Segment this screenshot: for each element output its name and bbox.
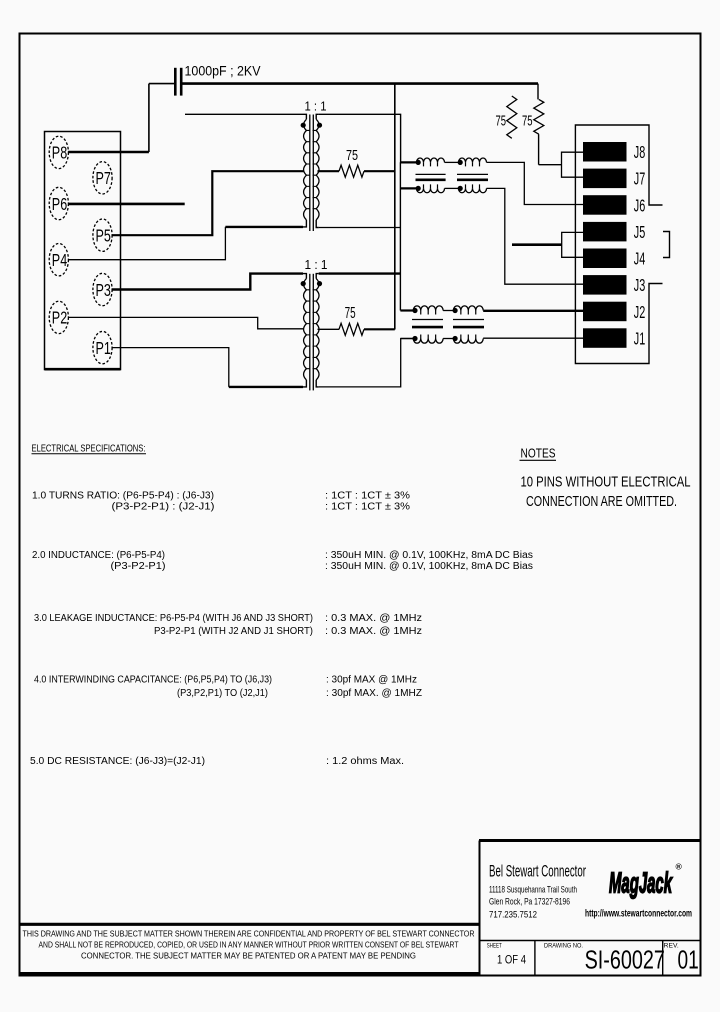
svg-text:ELECTRICAL SPECIFICATIONS:: ELECTRICAL SPECIFICATIONS: xyxy=(32,444,146,455)
svg-text:P2: P2 xyxy=(52,309,67,329)
svg-text:DRAWING NO.: DRAWING NO. xyxy=(544,943,583,950)
pin P3 xyxy=(93,273,112,305)
svg-text:J6: J6 xyxy=(634,197,645,216)
disclaimer box xyxy=(19,923,479,926)
svg-text:®: ® xyxy=(676,862,683,872)
svg-text:1.0 TURNS RATIO: (P6-P5-P4) :: 1.0 TURNS RATIO: (P6-P5-P4) : (J6-J3) xyxy=(32,491,214,502)
node J5/J4 right bracket xyxy=(663,232,670,258)
svg-text:(P3,P2,P1) TO (J2,J1): (P3,P2,P1) TO (J2,J1) xyxy=(177,688,268,699)
choke L1 core xyxy=(416,173,446,175)
svg-text:75: 75 xyxy=(522,112,533,129)
svg-text:: 30pf MAX @ 1MHz: : 30pf MAX @ 1MHz xyxy=(326,675,417,686)
transformer T1 secondary winding xyxy=(316,114,319,119)
pin J7 xyxy=(583,169,627,189)
svg-text:11118 Susquehanna Trail South: 11118 Susquehanna Trail South xyxy=(489,884,577,895)
svg-text:CONNECTOR. THE SUBJECT MATTER: CONNECTOR. THE SUBJECT MATTER MAY BE PAT… xyxy=(81,950,416,960)
wire T2 secondary top to node xyxy=(319,272,401,274)
svg-text:MagJack: MagJack xyxy=(609,868,673,900)
resistor R3 75 (T1 center tap) xyxy=(318,170,340,172)
wire choke L2 to J1 xyxy=(483,337,583,339)
svg-text:3.0 LEAKAGE INDUCTANCE: P6-P5-: 3.0 LEAKAGE INDUCTANCE: P6-P5-P4 (WITH J… xyxy=(34,613,313,624)
wire P1 to T2 primary bottom xyxy=(112,348,229,387)
wire P4 to T1 primary bottom xyxy=(68,227,225,260)
wire R2 to J8/J7 bracket xyxy=(539,164,562,166)
transformer T2 core xyxy=(309,274,311,391)
svg-text:1 : 1: 1 : 1 xyxy=(305,257,328,272)
svg-text:: 0.3 MAX. @ 1MHz: : 0.3 MAX. @ 1MHz xyxy=(325,613,422,624)
svg-text:THIS DRAWING AND THE SUBJECT M: THIS DRAWING AND THE SUBJECT MATTER SHOW… xyxy=(23,928,475,938)
svg-text:5.0 DC RESISTANCE: (J6-J3)=(J2: 5.0 DC RESISTANCE: (J6-J3)=(J2-J1) xyxy=(30,756,205,767)
wire common node vertical xyxy=(399,162,401,310)
svg-text:1 OF 4: 1 OF 4 xyxy=(497,955,526,967)
node J5/J4 bracket xyxy=(562,232,583,257)
resistor R1 75 (floating) xyxy=(507,96,517,138)
svg-text:J1: J1 xyxy=(634,330,645,349)
svg-text:J7: J7 xyxy=(634,170,645,189)
svg-text:717.235.7512: 717.235.7512 xyxy=(489,910,537,921)
svg-text:Bel Stewart Connector: Bel Stewart Connector xyxy=(489,863,586,881)
pin P1 xyxy=(93,331,112,363)
MagJack logo xyxy=(609,868,673,900)
svg-text:P3: P3 xyxy=(96,281,111,301)
wire P8 to cap xyxy=(68,151,149,154)
transformer T2 polarity dots xyxy=(301,281,306,286)
svg-text:2.0 INDUCTANCE: (P6-P5-P4): 2.0 INDUCTANCE: (P6-P5-P4) xyxy=(32,550,165,561)
wire center-tap rail xyxy=(394,84,396,330)
svg-text:REV.: REV. xyxy=(664,943,679,950)
choke L1 top winding xyxy=(401,161,418,163)
wire T1 primary top (open end) xyxy=(185,113,303,115)
wire choke L1 to J6 xyxy=(487,162,584,204)
connector P box xyxy=(45,132,121,370)
svg-text:: 350uH MIN. @ 0.1V, 100KHz, 8: : 350uH MIN. @ 0.1V, 100KHz, 8mA DC Bias xyxy=(325,561,533,572)
pin P8 xyxy=(49,136,68,168)
pin P2 xyxy=(49,301,68,333)
svg-text:75: 75 xyxy=(346,147,358,164)
title block frame xyxy=(479,839,701,842)
svg-text:J8: J8 xyxy=(634,144,645,163)
svg-text:J5: J5 xyxy=(634,223,645,242)
choke L2 core xyxy=(412,319,443,321)
wire T2 secondary bottom xyxy=(319,339,414,387)
svg-text:J2: J2 xyxy=(634,303,645,322)
svg-text:P5: P5 xyxy=(96,227,111,247)
svg-text:: 0.3 MAX. @ 1MHz: : 0.3 MAX. @ 1MHz xyxy=(325,626,422,637)
transformer T1 primary winding xyxy=(303,114,306,119)
wire cap to resistor R2 (top rail) xyxy=(182,82,538,85)
svg-text:P8: P8 xyxy=(52,144,67,164)
svg-text:: 1.2 ohms Max.: : 1.2 ohms Max. xyxy=(326,756,404,767)
svg-text:CONNECTION ARE OMITTED.: CONNECTION ARE OMITTED. xyxy=(526,493,677,510)
choke L2 bottom winding xyxy=(401,338,415,340)
svg-text:J4: J4 xyxy=(634,250,645,269)
svg-text:J3: J3 xyxy=(634,277,645,296)
wire T1 secondary bottom to node xyxy=(319,227,401,229)
svg-text:SHEET: SHEET xyxy=(487,943,502,950)
svg-text:1000pF ; 2KV: 1000pF ; 2KV xyxy=(185,64,261,79)
wire P5 to T1 primary center tap xyxy=(112,171,304,235)
wire P6 stub xyxy=(68,203,185,206)
pin P4 xyxy=(49,244,68,276)
svg-text:75: 75 xyxy=(496,112,507,129)
svg-text:10 PINS WITHOUT ELECTRICAL: 10 PINS WITHOUT ELECTRICAL xyxy=(521,473,691,490)
pin J4 xyxy=(583,249,627,269)
pin J2 xyxy=(583,302,627,322)
transformer T2 primary winding xyxy=(303,274,306,279)
svg-text:SI-60027: SI-60027 xyxy=(585,945,665,974)
svg-text:AND SHALL NOT BE REPRODUCED, C: AND SHALL NOT BE REPRODUCED, COPIED, OR … xyxy=(39,939,460,949)
choke L1 bottom winding xyxy=(400,187,417,189)
svg-text:P1: P1 xyxy=(96,339,111,359)
wire P3 to T2 primary top xyxy=(112,274,303,290)
node J8/J7 bracket xyxy=(562,152,584,177)
svg-text:NOTES: NOTES xyxy=(521,446,556,461)
svg-text:(P3-P2-P1) : (J2-J1): (P3-P2-P1) : (J2-J1) xyxy=(112,502,215,513)
svg-text:: 1CT : 1CT ± 3%: : 1CT : 1CT ± 3% xyxy=(325,502,410,513)
capacitor C1 1000pF 2KV xyxy=(174,68,177,96)
svg-text:http://www.stewartconnector.co: http://www.stewartconnector.com xyxy=(585,909,692,920)
svg-text:: 30pf MAX. @ 1MHZ: : 30pf MAX. @ 1MHZ xyxy=(326,688,422,699)
pin J1 xyxy=(583,328,627,348)
svg-text:P4: P4 xyxy=(52,251,68,271)
svg-text:4.0 INTERWINDING CAPACITANCE:: 4.0 INTERWINDING CAPACITANCE: (P6,P5,P4)… xyxy=(34,675,272,686)
svg-text:P6: P6 xyxy=(52,195,67,215)
svg-text:P3-P2-P1 (WITH J2 AND J1 SHORT: P3-P2-P1 (WITH J2 AND J1 SHORT) xyxy=(154,626,313,637)
svg-text:01: 01 xyxy=(678,946,699,975)
resistor R2 75 xyxy=(537,84,539,100)
svg-text:75: 75 xyxy=(345,305,356,322)
wire J5/J4 feed xyxy=(512,243,562,246)
transformer T2 secondary winding xyxy=(316,274,319,279)
pin P7 xyxy=(93,162,112,194)
transformer T1 core xyxy=(309,115,311,232)
wire T1 secondary top to chokes xyxy=(319,114,417,162)
svg-text:Glen Rock, Pa 17327-8196: Glen Rock, Pa 17327-8196 xyxy=(489,897,570,908)
pin J3 xyxy=(583,275,627,295)
choke L2 top winding xyxy=(400,309,414,311)
wire P2 to T2 primary center tap xyxy=(68,317,304,328)
connector J box xyxy=(575,125,662,364)
svg-text:: 1CT : 1CT ± 3%: : 1CT : 1CT ± 3% xyxy=(325,491,410,502)
svg-text:P7: P7 xyxy=(96,169,111,189)
pin P5 xyxy=(93,219,112,251)
wire choke L1 to J3 xyxy=(487,188,584,284)
svg-text:(P3-P2-P1): (P3-P2-P1) xyxy=(111,561,166,572)
pin J5 xyxy=(583,222,627,242)
pin J8 xyxy=(583,142,627,162)
pin P6 xyxy=(49,187,68,219)
pin J6 xyxy=(583,195,627,215)
resistor R4 75 (T2 center tap) xyxy=(318,328,340,330)
transformer T1 polarity dots xyxy=(301,123,306,128)
svg-text:1 : 1: 1 : 1 xyxy=(305,98,327,113)
wire choke L2 to J2 xyxy=(483,310,583,312)
svg-text:: 350uH MIN. @ 0.1V, 100KHz, 8: : 350uH MIN. @ 0.1V, 100KHz, 8mA DC Bias xyxy=(325,550,533,561)
